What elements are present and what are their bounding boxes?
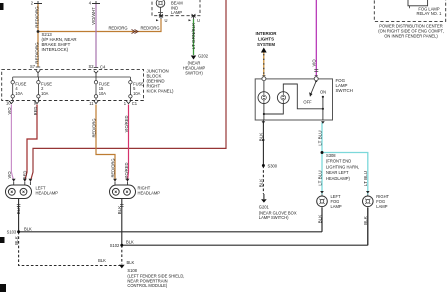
svg-text:LAMP: LAMP xyxy=(171,10,182,15)
svg-text:10A: 10A xyxy=(133,91,141,96)
svg-text:10A: 10A xyxy=(15,91,23,96)
svg-text:KICK PANEL): KICK PANEL) xyxy=(147,89,175,94)
svg-text:OFF: OFF xyxy=(303,100,312,105)
svg-text:LT BLU: LT BLU xyxy=(317,130,322,145)
svg-text:BLK: BLK xyxy=(117,205,122,215)
svg-text:U: U xyxy=(165,18,168,23)
svg-text:G201: G201 xyxy=(259,205,270,210)
svg-text:S308: S308 xyxy=(326,153,336,158)
svg-text:BLK: BLK xyxy=(24,227,32,232)
svg-text:S300: S300 xyxy=(268,164,278,169)
svg-text:VIO: VIO xyxy=(312,59,317,66)
svg-text:VIO/RED: VIO/RED xyxy=(124,163,129,180)
svg-text:BLK: BLK xyxy=(126,240,134,245)
svg-text:BLK: BLK xyxy=(127,260,135,265)
svg-text:INTERIOR: INTERIOR xyxy=(256,31,278,36)
svg-text:U: U xyxy=(197,18,200,23)
svg-text:(FRONT END: (FRONT END xyxy=(326,159,351,164)
svg-text:VIO/WHT: VIO/WHT xyxy=(91,7,96,25)
svg-text:HEADLAMP: HEADLAMP xyxy=(36,191,59,196)
svg-text:LT BLU: LT BLU xyxy=(317,170,322,185)
svg-text:RED/ORG: RED/ORG xyxy=(35,42,40,64)
svg-text:VIO: VIO xyxy=(7,171,12,178)
svg-text:CONTROL MODULE): CONTROL MODULE) xyxy=(127,283,168,288)
svg-text:LAMP: LAMP xyxy=(376,204,387,209)
svg-text:VIO: VIO xyxy=(7,107,12,114)
svg-text:BLK: BLK xyxy=(98,258,106,263)
svg-text:BLK: BLK xyxy=(259,178,264,188)
svg-text:SWITCH: SWITCH xyxy=(336,88,353,93)
svg-text:ON INNER FENDER PANEL): ON INNER FENDER PANEL) xyxy=(384,34,438,39)
svg-text:RED: RED xyxy=(23,171,28,180)
svg-text:RED: RED xyxy=(33,107,38,116)
svg-text:VIO/RED: VIO/RED xyxy=(124,116,129,133)
svg-text:LAMP: LAMP xyxy=(331,204,342,209)
svg-text:RELAY NO. 1: RELAY NO. 1 xyxy=(417,11,443,16)
svg-text:10A: 10A xyxy=(41,91,49,96)
svg-text:LT BLU: LT BLU xyxy=(363,171,368,186)
svg-text:SWITCH): SWITCH) xyxy=(185,70,203,75)
svg-text:S103: S103 xyxy=(7,230,17,235)
svg-text:G202: G202 xyxy=(198,54,209,59)
svg-text:RED/ORG: RED/ORG xyxy=(108,26,127,31)
svg-text:BLK: BLK xyxy=(317,214,322,224)
svg-text:RED/ORG: RED/ORG xyxy=(35,6,40,28)
svg-text:LT GRN/BLK: LT GRN/BLK xyxy=(191,22,196,49)
svg-text:RED/ORG: RED/ORG xyxy=(92,118,97,137)
svg-text:BLK: BLK xyxy=(14,235,19,245)
svg-text:S2: S2 xyxy=(88,64,94,69)
svg-text:S108: S108 xyxy=(127,268,137,273)
svg-text:NEAR LEFT: NEAR LEFT xyxy=(326,170,349,175)
svg-text:LAMP SWITCH): LAMP SWITCH) xyxy=(259,215,289,220)
svg-text:RED/ORG: RED/ORG xyxy=(111,158,116,177)
svg-text:S102: S102 xyxy=(110,243,120,248)
svg-text:BLK: BLK xyxy=(16,205,21,215)
svg-text:LIGHTING HARN,: LIGHTING HARN, xyxy=(326,164,359,169)
svg-text:10: 10 xyxy=(6,101,11,106)
svg-text:BLK: BLK xyxy=(363,215,368,225)
svg-text:ON: ON xyxy=(320,90,326,95)
svg-text:RED/ORG: RED/ORG xyxy=(140,26,159,31)
svg-text:C4: C4 xyxy=(100,64,106,69)
svg-text:11: 11 xyxy=(89,101,94,106)
svg-text:C1: C1 xyxy=(132,101,138,106)
svg-text:10A: 10A xyxy=(99,91,107,96)
svg-text:INTERLOCK): INTERLOCK) xyxy=(42,47,69,52)
svg-text:LIGHTS: LIGHTS xyxy=(258,37,274,42)
svg-text:SYSTEM: SYSTEM xyxy=(257,42,275,47)
svg-text:HEADLAMP: HEADLAMP xyxy=(138,191,161,196)
svg-text:HEADLAMP): HEADLAMP) xyxy=(326,176,351,181)
